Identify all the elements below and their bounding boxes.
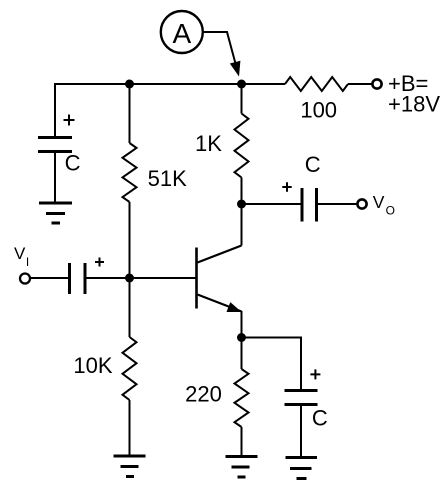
svg-text:+18V: +18V xyxy=(388,92,440,117)
svg-text:10K: 10K xyxy=(73,353,112,378)
svg-text:C: C xyxy=(65,151,81,176)
svg-text:C: C xyxy=(312,406,328,431)
svg-text:220: 220 xyxy=(185,382,222,407)
svg-text:1K: 1K xyxy=(195,131,222,156)
svg-text:A: A xyxy=(172,18,191,49)
svg-text:100: 100 xyxy=(300,98,337,123)
svg-text:51K: 51K xyxy=(148,166,187,191)
svg-text:C: C xyxy=(305,152,321,177)
svg-text:V: V xyxy=(14,244,26,263)
svg-text:I: I xyxy=(26,255,29,269)
svg-text:O: O xyxy=(386,204,395,218)
svg-text:V: V xyxy=(373,192,385,212)
